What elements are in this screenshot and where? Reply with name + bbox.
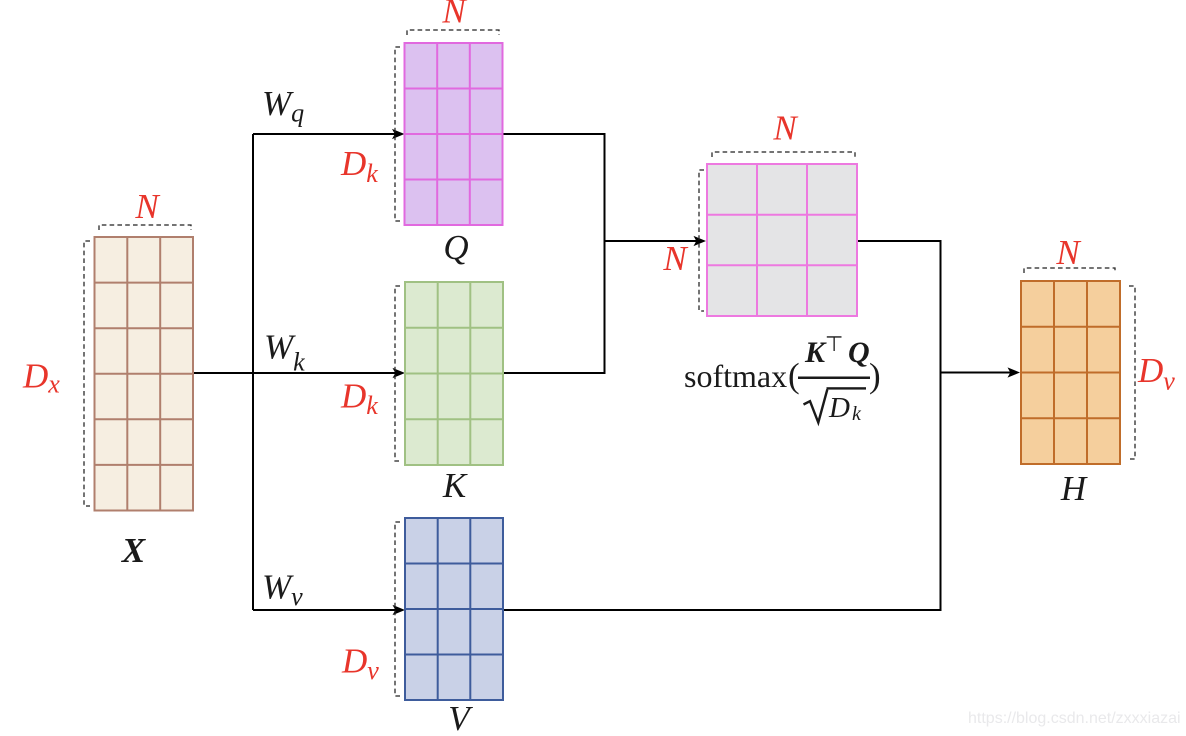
- svg-text:N: N: [772, 109, 798, 148]
- svg-text:Q: Q: [443, 228, 468, 267]
- svg-text:K: K: [442, 466, 468, 505]
- svg-text:X: X: [121, 531, 147, 570]
- svg-text:N: N: [1055, 233, 1081, 272]
- svg-text:⊤: ⊤: [825, 332, 843, 356]
- svg-text:Q: Q: [848, 336, 870, 369]
- svg-text:K: K: [804, 336, 827, 369]
- svg-text:): ): [869, 356, 881, 395]
- svg-text:D: D: [828, 392, 850, 424]
- svg-text:H: H: [1060, 469, 1088, 508]
- svg-text:(: (: [788, 356, 800, 395]
- svg-text:N: N: [662, 239, 688, 278]
- svg-text:V: V: [448, 699, 473, 736]
- svg-text:N: N: [134, 187, 160, 226]
- svg-text:k: k: [852, 403, 862, 425]
- svg-text:N: N: [441, 0, 467, 31]
- svg-text:https://blog.csdn.net/zxxxiaza: https://blog.csdn.net/zxxxiazai: [968, 710, 1181, 727]
- svg-text:softmax: softmax: [684, 358, 787, 394]
